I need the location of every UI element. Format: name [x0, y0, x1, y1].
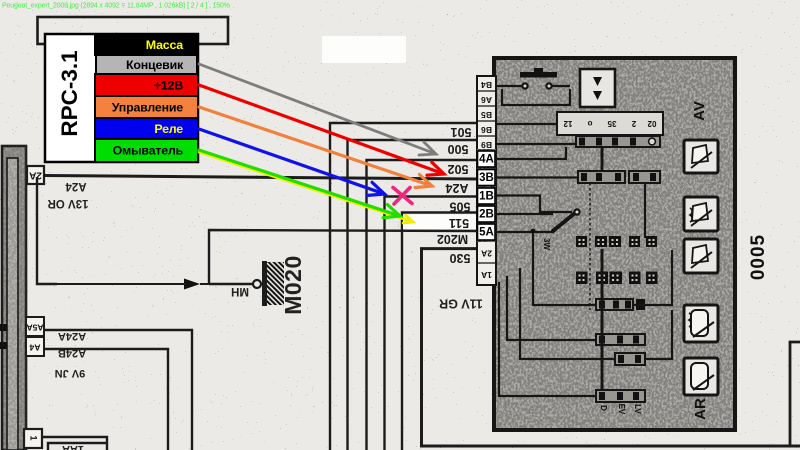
white patch 511 [403, 215, 476, 230]
switch blade [553, 213, 575, 231]
pin strip column [477, 76, 496, 285]
legend row Масса [95, 34, 198, 55]
pin cell B6 [477, 135, 496, 137]
connector bar B [596, 334, 645, 345]
internal staircase wire to bar A [533, 233, 596, 305]
wire 1B internal [496, 196, 572, 213]
svg-text:Peugeot_expert_2008.jpg (2894: Peugeot_expert_2008.jpg (2894 x 4092 = 1… [2, 2, 230, 9]
wire internal y124 [496, 123, 557, 125]
legend row Реле [95, 118, 198, 139]
arrow green Омыватель [199, 150, 400, 218]
svg-text:B4: B4 [481, 80, 492, 90]
switch S1 top left [496, 68, 570, 105]
svg-text:35: 35 [607, 119, 616, 128]
black direction arrow [184, 279, 200, 290]
legend row Омыватель [95, 139, 198, 162]
wire A24 horizontal [44, 176, 477, 180]
wire 3B internal [496, 176, 578, 178]
arrow red +12В [199, 85, 444, 175]
wire 2B internal [496, 213, 553, 215]
connector bar CB3 [629, 171, 660, 183]
pin cell A6 [477, 105, 496, 107]
svg-text:12: 12 [563, 119, 572, 128]
svg-text:AV: AV [691, 101, 708, 121]
wire 1AA [42, 437, 107, 450]
svg-text:Масса: Масса [146, 38, 183, 52]
arrow orange Управление [199, 107, 432, 188]
wire from CB1 down [601, 147, 604, 171]
pin cell B4 [477, 90, 496, 92]
svg-text:3B: 3B [479, 172, 494, 184]
svg-text:501: 501 [451, 125, 472, 139]
pin cell 2A [477, 262, 496, 264]
svg-text:Реле: Реле [154, 122, 183, 136]
connector bar C [615, 353, 645, 365]
svg-text:1AA: 1AA [62, 443, 84, 450]
svg-text:Управление: Управление [112, 100, 184, 114]
svg-text:A6: A6 [481, 95, 492, 105]
svg-text:LV: LV [633, 404, 642, 414]
svg-text:EV: EV [617, 404, 626, 415]
pin square dots [579, 239, 655, 281]
legend row Концевик [96, 55, 197, 74]
magenta X mark [393, 188, 412, 205]
wire 4A internal [496, 147, 566, 159]
svg-text:02: 02 [647, 119, 656, 128]
svg-text:3W: 3W [542, 238, 551, 250]
component box 1AA [48, 443, 107, 450]
junction dot A [0, 324, 7, 331]
connector bar A [596, 299, 645, 310]
annotation pin box 4A [478, 151, 496, 167]
wire M020 loop [209, 230, 477, 284]
legend row Управление [95, 96, 198, 118]
wire from CB3 down [644, 183, 646, 238]
wire 5A internal [496, 231, 553, 233]
svg-text:9V JN: 9V JN [55, 367, 86, 379]
arrow yellow [199, 152, 413, 223]
svg-text:Концевик: Концевик [126, 58, 184, 72]
svg-text:11V GR: 11V GR [439, 297, 483, 311]
svg-text:502: 502 [448, 162, 469, 176]
arrow gray Концевик [199, 64, 436, 155]
svg-text:A24A: A24A [58, 330, 86, 342]
svg-text:A24B: A24B [58, 347, 86, 359]
connector bar CB1 [576, 136, 660, 147]
annotation pin box 5A [478, 224, 496, 240]
legend row +12В [95, 74, 198, 96]
dashed wire [589, 183, 591, 310]
svg-text:MH: MH [231, 285, 249, 297]
wire: box outline behind legend top [38, 17, 229, 44]
wire bar C right [645, 310, 672, 359]
svg-text:A4: A4 [29, 342, 40, 352]
junction dot B [0, 342, 7, 349]
internal staircase wire to bar B [507, 276, 596, 340]
wire 501 [330, 123, 477, 450]
svg-text:2: 2 [631, 119, 636, 128]
switch contact [574, 209, 579, 214]
svg-text:1A: 1A [481, 270, 492, 280]
svg-text:M202: M202 [437, 232, 468, 246]
svg-text:M020: M020 [280, 255, 306, 315]
double arrow box [580, 69, 615, 107]
icon box washer 4 [684, 305, 718, 342]
wire A24A [44, 330, 192, 450]
icon box wiper 2 [684, 197, 718, 231]
svg-text:B6: B6 [481, 125, 492, 135]
svg-text:505: 505 [450, 200, 471, 214]
wire 530 [422, 249, 800, 446]
icon box washer 5 [684, 358, 718, 395]
icon box wiper 3 [684, 239, 718, 273]
icon box wiper 1 [684, 140, 718, 173]
svg-text:D: D [599, 405, 608, 411]
junction dot 5A [531, 229, 536, 234]
svg-text:530: 530 [450, 251, 471, 265]
annotation pin box 3B [478, 170, 496, 186]
svg-text:B9: B9 [481, 140, 492, 150]
svg-text:13V OR: 13V OR [47, 197, 89, 209]
svg-text:A24: A24 [445, 181, 468, 195]
svg-text:0005: 0005 [748, 234, 769, 280]
wire 500 [348, 140, 478, 450]
annotation pin box 2B [478, 206, 496, 222]
internal staircase wire to bar C [520, 268, 615, 359]
wire internal y144 [496, 143, 576, 145]
wire 511 [402, 213, 477, 450]
svg-text:RPC-3.1: RPC-3.1 [57, 50, 82, 136]
symbol strip box [557, 112, 663, 135]
connector bar D [596, 390, 645, 402]
internal staircase wire to bar D [499, 282, 596, 396]
wire labels column [437, 125, 472, 265]
svg-text:5A: 5A [479, 227, 494, 239]
connector block body 0005 [494, 58, 735, 430]
bottom right component box corner [790, 342, 800, 446]
svg-text:511: 511 [449, 216, 469, 230]
pin pair row 2 [577, 272, 658, 284]
pin pair row 1 [577, 237, 657, 247]
svg-text:2B: 2B [479, 209, 494, 221]
svg-text:4A: 4A [479, 154, 494, 166]
pin box 2A [27, 166, 44, 184]
svg-text:Омыватель: Омыватель [113, 143, 184, 157]
legend frame [45, 34, 198, 162]
annotation pin box 1B [478, 188, 496, 204]
wire A24 branch to ground [37, 177, 57, 284]
svg-text:AR: AR [692, 398, 709, 420]
pin box 1 bottom left [24, 429, 42, 448]
svg-text:1B: 1B [479, 191, 494, 203]
svg-text:2A: 2A [29, 169, 42, 180]
connector bar CB2 [578, 171, 625, 183]
pin cell B5 [477, 120, 496, 122]
wire 505 [385, 197, 478, 450]
pin box A5A [26, 317, 44, 336]
svg-text:B5: B5 [481, 110, 492, 120]
wire bar A right [633, 250, 672, 305]
svg-text:500: 500 [448, 142, 469, 156]
wire bars vertical [601, 249, 604, 390]
svg-text:2A: 2A [481, 248, 492, 258]
svg-text:A5A: A5A [26, 322, 43, 332]
pin strip dark section [477, 149, 496, 242]
wire A24B [44, 349, 168, 450]
white patch top [322, 36, 406, 63]
svg-text:+12В: +12В [154, 78, 183, 92]
svg-text:A24: A24 [65, 180, 87, 192]
wire 502 [367, 160, 478, 450]
svg-text:o: o [587, 119, 592, 128]
svg-text:1: 1 [29, 435, 39, 440]
ground M020 [231, 255, 306, 315]
arrow blue Реле [199, 129, 385, 195]
left connector strip [2, 146, 26, 450]
pin box A4 [26, 337, 44, 356]
